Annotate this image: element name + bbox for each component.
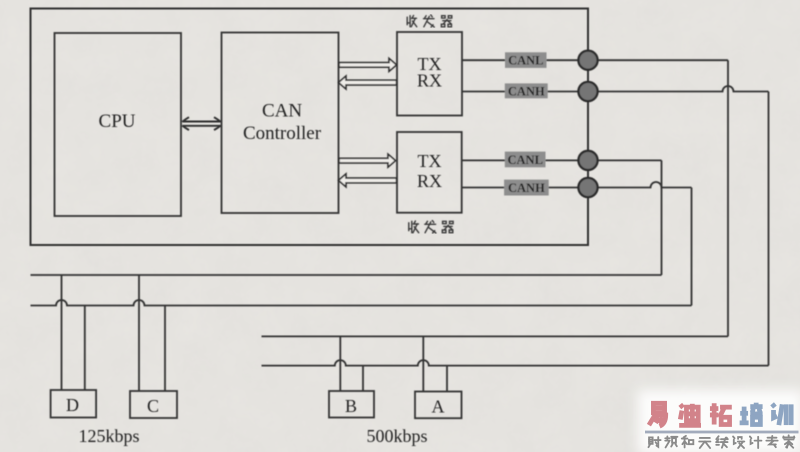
wire TX2 CANL to node column: [462, 159, 662, 161]
svg-text:D: D: [66, 395, 79, 415]
watermark underline: [645, 431, 799, 434]
wire TX1 CANL to node column: [462, 59, 728, 61]
outer system box: [31, 9, 589, 246]
bidirectional arrow CPU-CAN: [182, 117, 220, 130]
wire 500kbps bus line 2 with hops: [262, 360, 769, 365]
wire 125kbps bus line 2 with hops: [31, 300, 692, 306]
CANL label top: [505, 52, 547, 68]
svg-text:C: C: [147, 396, 159, 416]
watermark glow: [638, 390, 800, 452]
node terminal 2: [578, 82, 597, 101]
svg-text:125kbps: 125kbps: [78, 426, 139, 446]
svg-text:A: A: [432, 397, 445, 417]
node terminal 4: [578, 178, 597, 197]
transceiver label bottom (shou-fa-qi): [409, 220, 453, 233]
wire RX2 CANH with hop: [462, 182, 692, 187]
CAN controller box: [222, 33, 339, 214]
node D box: [51, 390, 97, 418]
TX RX labels box 2: [417, 151, 442, 191]
arrow CAN to TX1: [339, 58, 397, 71]
wire vertical from node2 down to 500k bus line 2: [768, 92, 770, 366]
watermark subtitle she-pin-he-tian-xian-she-ji-zhuan-jia: [648, 435, 794, 448]
wire vertical from node1 down to 500k bus: [727, 60, 729, 336]
svg-text:RX: RX: [417, 171, 442, 191]
svg-text:CPU: CPU: [99, 111, 136, 132]
CPU box: [55, 33, 182, 216]
transceiver label top (shou-fa-qi): [407, 15, 452, 27]
svg-text:B: B: [345, 396, 357, 416]
transceiver box 1: [397, 32, 462, 116]
wire node D drop 1: [61, 275, 63, 390]
node terminal 3: [578, 151, 597, 170]
svg-text:CAN: CAN: [262, 101, 302, 122]
CANL label bottom: [505, 152, 546, 168]
wire vertical from node4 down to 125k bus line 2: [691, 188, 693, 306]
wire node D drop 2: [84, 306, 86, 391]
wire vertical from node3 down to 125k bus line 1: [661, 160, 663, 275]
CANH label bottom: [504, 180, 549, 196]
watermark logo yi-di-tuo-pei-xun: [649, 403, 791, 427]
wire node A drop 2: [446, 366, 448, 392]
node B box: [329, 391, 374, 418]
arrow CAN to TX2: [339, 154, 396, 167]
node C box: [130, 391, 177, 418]
wire RX1 CANH with hop: [462, 86, 769, 92]
svg-text:RX: RX: [417, 71, 442, 91]
wire node C drop 2: [164, 306, 166, 392]
svg-text:CANL: CANL: [507, 153, 542, 167]
transceiver box 2: [397, 132, 462, 213]
CAN controller label: [243, 101, 322, 145]
wire 500kbps bus line 1: [262, 335, 729, 337]
svg-text:CANH: CANH: [508, 84, 545, 98]
CANH label top: [505, 83, 548, 98]
wire node B drop 1: [339, 336, 341, 391]
arrow RX2 to CAN: [339, 174, 397, 187]
svg-text:CANL: CANL: [508, 54, 543, 68]
arrow RX1 to CAN: [339, 76, 397, 89]
wire 125kbps bus line 1: [31, 274, 662, 276]
svg-text:Controller: Controller: [243, 123, 322, 144]
wire node C drop 1: [138, 275, 140, 391]
node terminal 1: [578, 51, 597, 70]
wire node A drop 1: [422, 336, 424, 391]
wire node B drop 2: [362, 366, 364, 391]
svg-text:TX: TX: [418, 151, 442, 171]
TX RX labels box 1: [417, 54, 442, 91]
svg-text:500kbps: 500kbps: [366, 426, 427, 446]
node A box: [415, 392, 462, 419]
svg-text:CANH: CANH: [508, 181, 545, 195]
